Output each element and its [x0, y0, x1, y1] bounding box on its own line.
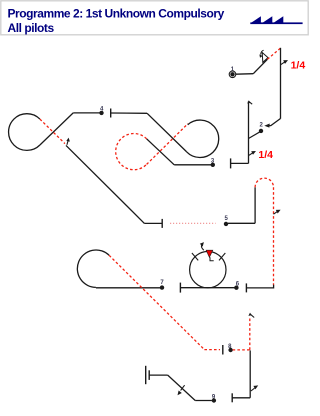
figure 4 up arrow	[67, 141, 68, 145]
figure 6 base wire	[180, 287, 236, 289]
figure 7 start dot	[160, 285, 164, 289]
figure 5 start dot	[224, 222, 228, 226]
figure 8 roll arrow	[251, 388, 255, 391]
figure 7 red dashed exit wire	[204, 349, 220, 351]
figure 3 45-degree exit climb line	[147, 113, 187, 152]
figure 3 end bar	[110, 109, 112, 118]
figure 9 end bar outer	[145, 366, 147, 384]
figure 7 end bar	[222, 345, 224, 355]
figure 3 45-degree climb line	[147, 139, 175, 165]
header box frame	[1, 1, 308, 35]
svg-text:All pilots: All pilots	[8, 21, 55, 35]
figure 4 start dot	[99, 111, 103, 115]
figure 3 inverted loop red dashed	[116, 134, 147, 170]
figure 1 45-degree up line	[253, 59, 267, 73]
figure 4 loop solid	[9, 114, 40, 151]
figure 5 roll arrow	[274, 212, 278, 215]
figure 7 inverted 45 red dashed descent	[109, 255, 204, 349]
figure 1 start ring	[229, 71, 236, 78]
figure 7 loop solid	[77, 250, 109, 287]
figure 8 vertical down line	[249, 350, 251, 397]
figure 1 vertical down line	[280, 48, 282, 119]
figure 9 roll arrow	[181, 385, 185, 390]
logo triangle 1	[250, 16, 261, 23]
figure 2 entry diagonal wire	[249, 131, 261, 138]
figure 2 vertical line	[248, 101, 250, 163]
figure 7 entry wire	[96, 287, 162, 289]
figure 1 start dot	[230, 72, 234, 76]
figure 5 entry wire	[228, 222, 255, 224]
figure 5 red dashed top arc	[255, 178, 273, 187]
figure 6 left tick	[192, 253, 198, 260]
figure 2 quarter roll arrow	[249, 153, 253, 156]
figure 4 long 45-degree descent line	[66, 145, 144, 223]
figure 2 exit wire	[231, 162, 249, 164]
figure 9 start dot	[212, 398, 216, 402]
figure 3 inverted 45 red dashed diagonal	[147, 124, 188, 165]
figure 3 exit wire	[111, 112, 147, 114]
figure 8 start dot	[228, 348, 232, 352]
figure 9 end bar inner	[148, 370, 150, 380]
figure 8 top direction flag	[250, 314, 254, 317]
connector dotted line 4 to 5	[170, 222, 216, 224]
figure 6 end bar	[179, 283, 181, 293]
figure 4 inverted red dashed 45 line	[40, 119, 65, 144]
logo baseline bar	[250, 22, 302, 24]
figure 3 entry wire	[174, 164, 213, 166]
figure 3 start dot	[211, 163, 215, 167]
figure 2 start dot	[259, 129, 263, 133]
figure 5 red dashed down line	[273, 187, 275, 285]
figure 1 inverted 45 red dashed line	[267, 48, 280, 59]
figure 1 entry wire	[236, 73, 254, 76]
svg-text:2: 2	[260, 123, 264, 129]
figure 8 end bar	[231, 393, 233, 402]
figure 1 exit arrowhead	[264, 124, 269, 128]
figure 4 end bar	[161, 219, 163, 228]
logo triangle 2	[262, 16, 273, 23]
figure 3 loop solid	[187, 120, 219, 157]
figure 6 rolling circle	[190, 252, 226, 288]
figure 8 exit wire	[232, 397, 250, 399]
svg-text:5: 5	[225, 216, 229, 222]
figure 4 entry wire	[73, 112, 101, 114]
figure 8 red dashed entry wire	[233, 349, 250, 351]
logo triangle 3	[273, 16, 283, 23]
figure 4 45-degree down line	[40, 113, 73, 145]
svg-text:7: 7	[160, 280, 164, 286]
figure 1 snap-roll arrow	[261, 50, 264, 54]
figure 2 end bar	[230, 158, 232, 168]
figure 6 right tick	[219, 253, 225, 260]
figure 8 red dashed vertical up line	[249, 317, 251, 350]
figure 6 foot mark	[210, 257, 214, 260]
figure 6 top arrow	[201, 245, 203, 250]
figure 5 exit elbow	[246, 285, 273, 288]
svg-text:Programme 2: 1st Unknown Compu: Programme 2: 1st Unknown Compulsory	[8, 7, 225, 21]
figure 9 entry wire	[195, 400, 212, 402]
figure 1 quarter roll arrow	[281, 62, 285, 65]
svg-text:1/4: 1/4	[291, 59, 306, 71]
figure 1 exit elbow	[267, 119, 280, 126]
figure 6 start dot	[234, 286, 238, 290]
figure 9 45-degree climb line	[168, 375, 196, 400]
figure 5 end bar	[245, 283, 247, 292]
svg-text:1/4: 1/4	[258, 149, 273, 161]
figure 5 vertical up line	[254, 187, 256, 223]
figure 1 snap-roll triangle	[262, 53, 268, 63]
figure 9 exit wire	[149, 374, 168, 376]
figure 6 spin triangle red	[206, 250, 213, 257]
figure 4 exit wire	[144, 222, 162, 224]
figure 2 top direction flag	[249, 102, 252, 104]
